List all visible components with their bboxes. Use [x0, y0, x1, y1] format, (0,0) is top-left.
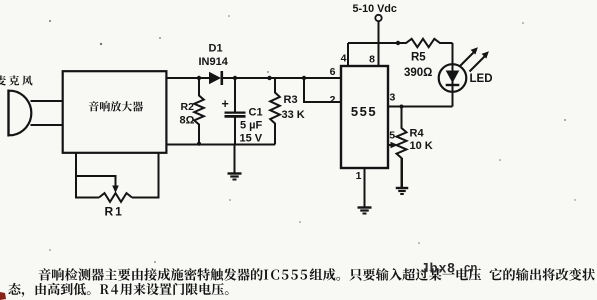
ground below R4 — [396, 158, 409, 194]
svg-text:15 V: 15 V — [240, 133, 263, 145]
wire supply horizontal — [348, 42, 398, 44]
svg-text:Jbx8: Jbx8 — [421, 261, 456, 276]
svg-text:cn: cn — [464, 263, 477, 275]
label 麦克风 (microphone) — [0, 75, 32, 85]
wire C1 bottom lead — [234, 118, 236, 145]
label 音响放大器 (audio amplifier) — [89, 101, 143, 111]
wire pin1 to ground — [364, 168, 366, 207]
svg-text:5 µF: 5 µF — [240, 120, 263, 132]
svg-text:1: 1 — [356, 170, 362, 182]
red corner mark — [0, 292, 6, 300]
svg-text:8Ω: 8Ω — [180, 115, 195, 127]
node junction C1 top — [233, 76, 237, 80]
svg-text:R5: R5 — [411, 52, 426, 64]
wire amplifier output to D1 anode — [166, 77, 209, 79]
resistor R5 — [398, 39, 453, 47]
svg-text:R1: R1 — [105, 205, 124, 219]
power terminal 5-10 Vdc — [375, 15, 381, 21]
LED vertical lead — [452, 64, 454, 107]
wire supply vertical to pin8 — [378, 21, 380, 66]
node junction pin6 loop — [302, 76, 306, 80]
svg-text:6: 6 — [330, 66, 336, 78]
svg-text:390Ω: 390Ω — [404, 67, 432, 79]
wire C1 top lead — [234, 78, 236, 112]
node junction R5 feed — [396, 41, 400, 45]
svg-text:5-10 Vdc: 5-10 Vdc — [353, 3, 397, 15]
diode D1 cathode bar — [221, 71, 224, 85]
svg-text:D1: D1 — [209, 43, 223, 55]
svg-text:+: + — [222, 97, 229, 111]
node junction R2 bottom — [197, 142, 201, 146]
wire pin5 stub — [388, 144, 392, 146]
ground below C1 — [228, 145, 242, 180]
wire D1 cathode to 555 pin6 — [223, 77, 342, 79]
caption line 2 — [8, 283, 228, 297]
svg-text:2: 2 — [330, 94, 336, 106]
op-amp timer IC 555 box — [341, 66, 388, 168]
R1 wiper horizontal — [75, 175, 116, 177]
LED emission arrow 1 — [460, 53, 474, 67]
R4 wiper arrow from pin5 — [391, 142, 399, 148]
capacitor C1 top plate — [225, 111, 246, 113]
svg-text:33 K: 33 K — [282, 109, 305, 121]
resistor R4 (pot) — [397, 107, 407, 188]
wire R1 loop right — [132, 153, 159, 198]
wire bottom rail — [166, 144, 275, 146]
R1 wiper arrowhead — [112, 186, 119, 194]
svg-text:8: 8 — [369, 54, 375, 66]
svg-text:R3: R3 — [284, 94, 298, 106]
svg-text:555: 555 — [351, 104, 377, 119]
wire pin4 drop — [347, 43, 349, 66]
LED emission arrowhead 2 — [482, 51, 489, 58]
svg-text:3: 3 — [390, 92, 396, 104]
wire R5 to LED — [452, 43, 454, 65]
wire pin3 to LED bottom — [388, 106, 453, 108]
scan specks (noise) — [49, 15, 576, 263]
node junction R3 top — [267, 76, 271, 80]
resistor R2 — [194, 78, 204, 144]
node junction R2 top — [197, 76, 201, 80]
LED emission arrowhead 1 — [471, 47, 478, 54]
LED D2 circle — [439, 64, 467, 92]
svg-text:LED: LED — [470, 73, 493, 85]
caption line 1 — [39, 268, 595, 281]
wire mic to amplifier top — [31, 100, 64, 102]
wire loop pin6 to pin2 — [304, 78, 341, 102]
ground below pin 1 — [358, 200, 372, 214]
svg-text:R4: R4 — [410, 128, 425, 140]
diode D1 triangle — [209, 72, 221, 84]
wire mic to amplifier bottom — [31, 124, 64, 126]
svg-text:R2: R2 — [181, 101, 195, 113]
resistor R1 (pot) — [99, 193, 132, 202]
node junction R4 top — [400, 105, 404, 109]
svg-text:10 K: 10 K — [410, 140, 433, 152]
R1 wiper vertical — [115, 175, 117, 186]
capacitor C1 bottom plate — [225, 115, 246, 118]
audio amplifier box — [63, 71, 167, 153]
LED triangle — [446, 71, 460, 84]
wire R1 loop left — [76, 153, 99, 198]
svg-text:5: 5 — [389, 130, 395, 142]
resistor R3 — [270, 78, 280, 145]
LED emission arrow 2 — [470, 57, 485, 72]
LED cathode bar — [446, 84, 460, 86]
microphone MIC body — [9, 90, 32, 137]
svg-text:IN914: IN914 — [199, 56, 229, 68]
svg-text:4: 4 — [341, 53, 347, 65]
svg-text:C1: C1 — [249, 107, 263, 119]
